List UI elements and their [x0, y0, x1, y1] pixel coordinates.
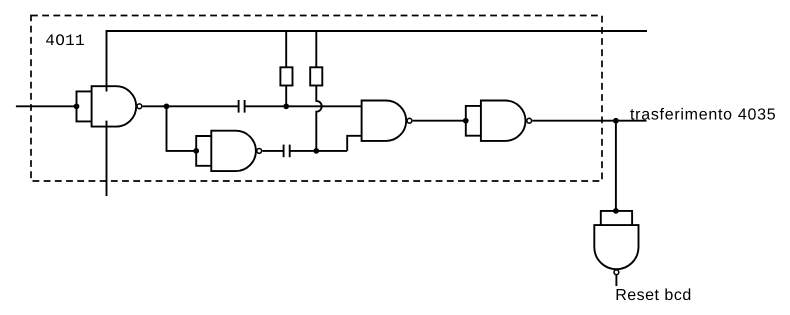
resistor R1 lower lead [285, 86, 287, 107]
resistor R1 [280, 67, 292, 85]
wire: down from junction to U5 [615, 121, 617, 211]
wire: U4 input tie loop [466, 106, 482, 136]
resistor R2 lead from top rail [315, 31, 317, 67]
node: junction at U1 output [164, 103, 170, 109]
NAND gate U1 body [92, 86, 137, 126]
wire: top horizontal rail from gate U1 area to right edge [107, 31, 648, 92]
NAND gate U3 body [362, 101, 407, 141]
wire: down from U1 output junction to U2 input [167, 106, 197, 151]
node: U5 input junction [613, 208, 619, 214]
wire: U4 output to right / trasferimento net [532, 120, 646, 122]
resistor R2 [310, 67, 322, 85]
U5 output bubble [614, 270, 619, 275]
node: U1 input junction [74, 103, 80, 109]
wire: left input to U1 [16, 105, 77, 107]
wire: U5 input tie loop [601, 211, 632, 226]
IC boundary dashed box 4011 [31, 16, 602, 182]
resistor R1 lead from top rail [285, 31, 287, 67]
svg-text:4O11: 4O11 [45, 32, 85, 50]
NAND gate U4 body [481, 101, 526, 141]
wire: C2 to corner below U3 [290, 150, 348, 152]
U3 output bubble [407, 118, 412, 123]
wire: U2 input tie loop [196, 136, 212, 166]
node: junction on trasferimento net [613, 118, 619, 124]
wire: U5 output stub [615, 275, 617, 286]
wire: C1 to gate U3 upper input [245, 105, 362, 107]
wire: up into U3 lower input [347, 136, 361, 151]
svg-text:Reset bcd: Reset bcd [615, 287, 692, 304]
NAND gate U2 body [211, 131, 256, 171]
U2 output bubble [257, 149, 262, 154]
wire: vertical below gate U1 [106, 121, 108, 196]
wire: U1 output to capacitor C1 [143, 105, 239, 107]
wire: U1 input tie loop [77, 91, 93, 121]
node: R1 junction on wire [283, 103, 289, 109]
wire: U3 output to U4 input [413, 120, 466, 122]
resistor R2 lower lead with hop over wire [316, 86, 321, 151]
NAND gate U5 body (points down) [594, 225, 638, 269]
U1 output bubble [137, 104, 142, 109]
U4 output bubble [527, 118, 532, 123]
capacitor C2 [283, 145, 285, 158]
node: U4 input junction [463, 118, 469, 124]
capacitor C1 [238, 100, 240, 113]
wire: U2 output to capacitor C2 [262, 150, 283, 152]
node: R2 junction on lower wire [313, 148, 319, 154]
node: U2 input junction [193, 148, 199, 154]
svg-text:trasferimento 4035: trasferimento 4035 [630, 107, 776, 124]
